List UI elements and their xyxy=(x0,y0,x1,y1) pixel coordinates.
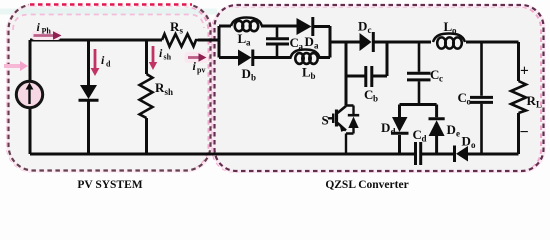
label ipv xyxy=(193,59,206,75)
svg-text:pv: pv xyxy=(197,66,205,75)
diode Db xyxy=(238,50,253,67)
QZSL Converter box interior xyxy=(215,5,544,171)
PV SYSTEM box crimson top edge xyxy=(29,3,193,7)
label Dc xyxy=(358,19,372,36)
faint pink dashed guide line across top xyxy=(13,15,204,31)
inductor La xyxy=(231,18,262,32)
wire: PV left vertical xyxy=(29,40,32,154)
svg-text:o: o xyxy=(467,97,472,107)
svg-text:PV SYSTEM: PV SYSTEM xyxy=(77,179,142,191)
svg-text:D: D xyxy=(358,19,367,34)
svg-text:R: R xyxy=(155,80,165,95)
svg-text:R: R xyxy=(170,19,180,34)
label Co xyxy=(458,90,472,107)
svg-text:D: D xyxy=(462,134,471,149)
svg-text:a: a xyxy=(246,38,251,48)
label Cc xyxy=(430,67,443,84)
QZSL box pink under-border glow xyxy=(213,7,542,173)
svg-text:c: c xyxy=(368,25,372,35)
svg-text:QZSL Converter: QZSL Converter xyxy=(325,179,408,191)
resistor RL xyxy=(511,42,526,154)
node: QZSL input bus (left) xyxy=(218,26,221,58)
label Do xyxy=(462,134,477,151)
diode Dc xyxy=(360,32,374,52)
svg-text:D: D xyxy=(242,66,251,81)
wire: bottom rail xyxy=(30,153,519,156)
label Ca xyxy=(290,35,304,52)
PV SYSTEM box dashed border xyxy=(9,5,211,171)
label Rsh xyxy=(155,80,173,97)
capacitor Cd xyxy=(416,142,421,165)
wire: ladder top branch xyxy=(219,25,330,29)
wire: PV top rail xyxy=(30,39,219,42)
svg-text:a: a xyxy=(314,41,319,51)
irradiance input arrow xyxy=(4,61,28,71)
label Db xyxy=(242,66,257,83)
svg-text:−: − xyxy=(520,124,529,141)
svg-text:a: a xyxy=(299,42,304,52)
svg-text:C: C xyxy=(458,90,467,105)
label Rs xyxy=(170,19,184,36)
svg-text:sh: sh xyxy=(165,87,174,97)
svg-text:C: C xyxy=(290,35,299,50)
label Dd xyxy=(381,120,396,137)
svg-text:sh: sh xyxy=(164,53,172,62)
arrow id xyxy=(91,49,100,76)
svg-text:c: c xyxy=(439,74,443,84)
wire: ladder bottom branch xyxy=(219,56,330,59)
svg-text:+: + xyxy=(520,63,529,80)
capacitor Ca xyxy=(266,28,289,57)
capacitor Cc xyxy=(407,43,431,103)
resistor Rs xyxy=(162,34,198,47)
svg-text:d: d xyxy=(391,127,396,137)
svg-text:b: b xyxy=(311,71,316,81)
svg-text:D: D xyxy=(447,122,456,137)
wire: output top rail xyxy=(466,41,519,44)
svg-text:D: D xyxy=(381,120,390,135)
PV SYSTEM box pink under-border glow xyxy=(7,6,209,172)
svg-text:S: S xyxy=(322,113,329,128)
arrow iPh xyxy=(34,31,62,40)
svg-text:s: s xyxy=(180,26,184,36)
diode D branch wire xyxy=(87,40,90,154)
arrow ipv xyxy=(185,52,209,63)
svg-text:L: L xyxy=(536,100,542,110)
label De xyxy=(447,122,461,139)
label Lb xyxy=(302,65,316,82)
wire: mid rail Dc to Lo xyxy=(375,41,432,44)
svg-text:b: b xyxy=(251,73,256,83)
svg-text:b: b xyxy=(373,94,378,104)
diode Do xyxy=(455,146,469,163)
label Cd xyxy=(413,127,427,144)
capacitor Co xyxy=(470,43,493,154)
transistor S (IGBT) xyxy=(328,106,359,155)
wire: switch drop xyxy=(345,42,348,106)
label iPh xyxy=(32,20,61,40)
svg-text:d: d xyxy=(422,134,427,144)
inductor Lo xyxy=(433,34,465,49)
node: ladder output bus (right) xyxy=(329,26,332,58)
label RL xyxy=(527,93,543,110)
svg-text:C: C xyxy=(413,127,422,142)
svg-text:d: d xyxy=(106,60,111,69)
current source Iph xyxy=(16,81,42,107)
svg-text:R: R xyxy=(527,93,537,108)
svg-text:o: o xyxy=(471,140,476,150)
diode Da xyxy=(297,17,313,36)
QZSL Converter box dashed border xyxy=(215,5,544,171)
svg-text:C: C xyxy=(364,87,373,102)
diode D xyxy=(79,85,99,100)
wire: Dd-De top link xyxy=(400,103,437,106)
wire: mid rail to Dc xyxy=(330,41,360,44)
resistor Rsh xyxy=(140,74,153,118)
cyan tint band along top of PV area xyxy=(0,9,217,15)
label Lo xyxy=(444,19,458,36)
svg-text:C: C xyxy=(430,67,439,82)
diode Dd xyxy=(391,105,409,155)
arrow ish xyxy=(149,46,157,70)
svg-text:D: D xyxy=(305,34,314,49)
label Da xyxy=(305,34,320,51)
label La xyxy=(238,31,252,48)
resistor Rsh branch wire xyxy=(145,40,148,154)
svg-text:o: o xyxy=(452,26,457,36)
inductor Lb xyxy=(291,50,320,64)
label id xyxy=(101,53,111,69)
label ish xyxy=(159,46,172,62)
diode De xyxy=(429,105,445,155)
svg-text:e: e xyxy=(456,129,460,139)
capacitor Cb xyxy=(366,66,372,87)
label Cb xyxy=(364,87,378,104)
PV SYSTEM box interior xyxy=(9,5,211,171)
wire: Cb link xyxy=(346,42,387,76)
